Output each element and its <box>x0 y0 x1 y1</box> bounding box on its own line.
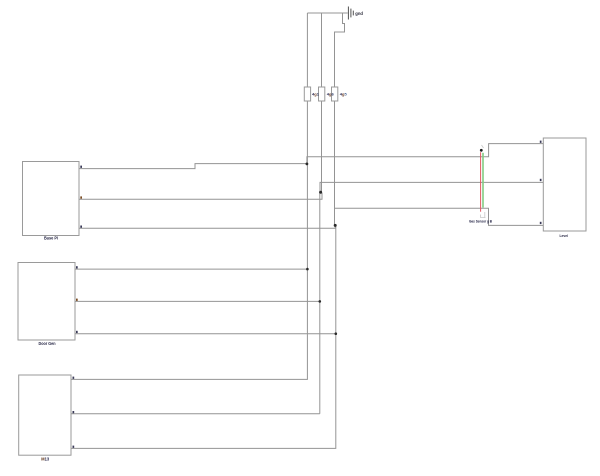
svg-text:M13: M13 <box>41 456 49 461</box>
svg-text:4g6: 4g6 <box>327 91 335 96</box>
svg-text:4g1: 4g1 <box>312 91 320 96</box>
svg-text:Base Pi: Base Pi <box>44 236 58 241</box>
svg-text:gnd: gnd <box>355 11 363 16</box>
svg-text:4g5: 4g5 <box>340 91 348 96</box>
svg-text:Door Gen: Door Gen <box>39 341 56 346</box>
svg-text:Level: Level <box>560 233 569 238</box>
svg-text:Gas Sensor g B: Gas Sensor g B <box>469 218 492 223</box>
